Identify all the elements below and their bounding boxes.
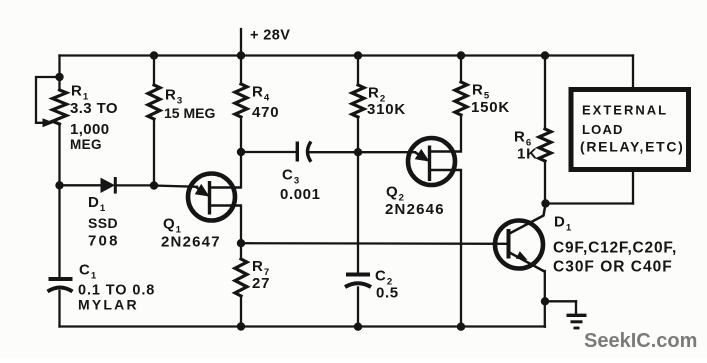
- svg-text:3.3 TO: 3.3 TO: [70, 100, 118, 117]
- svg-text:MYLAR: MYLAR: [78, 297, 139, 313]
- svg-text:0.001: 0.001: [280, 186, 321, 203]
- svg-text:708: 708: [88, 233, 120, 250]
- svg-text:0.5: 0.5: [376, 285, 399, 302]
- svg-text:LOAD: LOAD: [582, 122, 624, 137]
- svg-text:+ 28V: + 28V: [250, 28, 290, 44]
- svg-text:310K: 310K: [367, 101, 406, 118]
- svg-text:150K: 150K: [471, 99, 510, 116]
- svg-text:MEG: MEG: [70, 137, 102, 152]
- svg-text:SeekIC.com: SeekIC.com: [584, 330, 697, 352]
- svg-text:C30F OR C40F: C30F OR C40F: [553, 259, 673, 276]
- svg-text:1K: 1K: [517, 146, 538, 163]
- svg-text:2N2647: 2N2647: [161, 234, 221, 251]
- svg-text:1,000: 1,000: [70, 121, 110, 138]
- svg-text:C9F,C12F,C20F,: C9F,C12F,C20F,: [553, 240, 677, 257]
- svg-text:15 MEG: 15 MEG: [164, 105, 215, 121]
- svg-text:2N2646: 2N2646: [385, 201, 445, 218]
- svg-text:(RELAY,ETC): (RELAY,ETC): [580, 139, 685, 155]
- svg-text:470: 470: [252, 104, 279, 121]
- svg-text:27: 27: [252, 275, 270, 292]
- svg-text:SSD: SSD: [88, 215, 118, 231]
- svg-text:EXTERNAL: EXTERNAL: [582, 103, 668, 118]
